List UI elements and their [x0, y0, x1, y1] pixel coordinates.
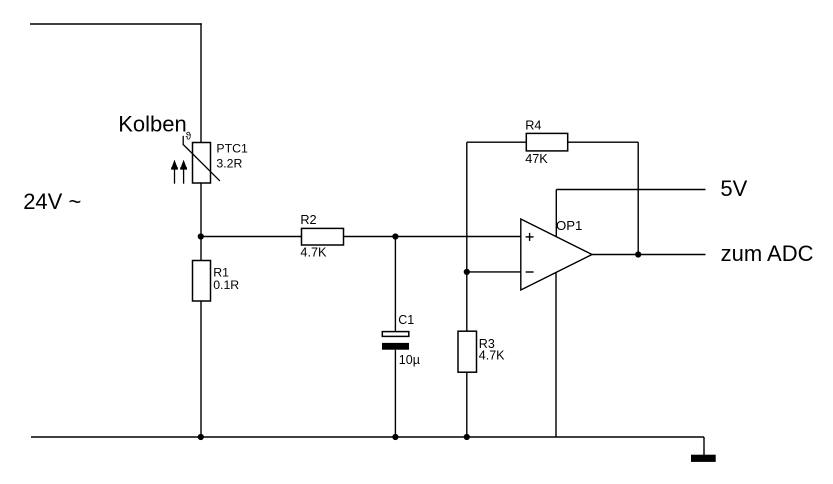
svg-text:C1: C1 — [398, 313, 414, 327]
svg-text:0.1R: 0.1R — [213, 278, 239, 292]
svg-text:Kolben: Kolben — [118, 111, 187, 136]
resistor R1 — [193, 261, 211, 302]
label R2 value — [300, 213, 327, 259]
wire node A to R2 — [201, 236, 302, 238]
svg-text:zum ADC: zum ADC — [721, 241, 814, 266]
wire ground drop — [703, 437, 705, 455]
wire op-amp output to zum ADC — [592, 254, 706, 256]
capacitor C1 — [382, 332, 409, 350]
wire feedback left vertical (R4 to minus node and down to R3) — [466, 142, 468, 332]
op-amp minus symbol — [526, 271, 534, 273]
wire PTC1 bottom to node A — [200, 183, 202, 237]
svg-text:3.2R: 3.2R — [216, 156, 242, 170]
node A junction dot — [198, 233, 204, 239]
junction dot rail/R1 — [198, 434, 204, 440]
op-amp plus symbol — [526, 233, 534, 241]
label R1 value — [213, 266, 239, 292]
wire 5V horizontal — [556, 189, 705, 191]
node D junction dot (output) — [635, 251, 641, 257]
wire feedback horizontal left segment — [467, 141, 527, 143]
wire R2 to op-amp plus input — [344, 236, 522, 238]
wire minus node to op-amp minus input — [467, 271, 521, 273]
node C junction dot (minus input) — [464, 269, 470, 275]
ground symbol — [691, 455, 716, 462]
svg-text:24V ~: 24V ~ — [23, 189, 81, 214]
wire vertical from top wire down to PTC1 — [200, 23, 202, 142]
svg-text:OP1: OP1 — [556, 218, 582, 233]
wire R1 bottom to ground rail — [200, 301, 202, 437]
wire 5V supply vertical to op-amp top edge — [555, 190, 557, 238]
svg-text:R2: R2 — [300, 213, 316, 227]
svg-text:PTC1: PTC1 — [216, 142, 248, 156]
resistor R3 — [458, 331, 477, 372]
wire feedback right vertical down to output — [637, 142, 639, 254]
wire C1 bottom to ground rail — [394, 350, 396, 437]
wire feedback horizontal right segment — [567, 141, 638, 143]
wire top horizontal from 24V to PTC column — [30, 23, 202, 25]
label PTC1 value — [216, 142, 248, 171]
junction dot rail/R3 — [464, 434, 470, 440]
node B junction dot (R2/C1) — [392, 233, 398, 239]
svg-text:R4: R4 — [525, 118, 541, 132]
op-amp OP1 triangle — [521, 219, 592, 290]
wire node A to R1 — [200, 237, 202, 261]
junction dot rail/C1 — [392, 434, 398, 440]
resistor R2 — [302, 228, 344, 245]
wire op-amp V- pin down to ground rail — [555, 272, 557, 437]
wire ground rail — [31, 436, 704, 438]
wire node B down to C1 — [394, 237, 396, 333]
label R3 value — [479, 337, 505, 363]
label R4 value — [525, 118, 548, 166]
svg-text:4.7K: 4.7K — [479, 349, 505, 363]
wire R3 bottom to ground rail — [466, 372, 468, 437]
thermistor PTC1 diagonal stroke — [183, 136, 220, 181]
resistor R4 — [526, 133, 567, 151]
heat arrow right — [180, 160, 187, 184]
svg-text:4.7K: 4.7K — [300, 245, 327, 259]
svg-text:47K: 47K — [525, 152, 548, 166]
svg-text:10µ: 10µ — [399, 353, 420, 367]
thermistor PTC1 body — [193, 143, 211, 184]
svg-text:5V: 5V — [720, 176, 747, 201]
label C1 value — [398, 313, 420, 367]
heat arrow left — [171, 160, 178, 184]
